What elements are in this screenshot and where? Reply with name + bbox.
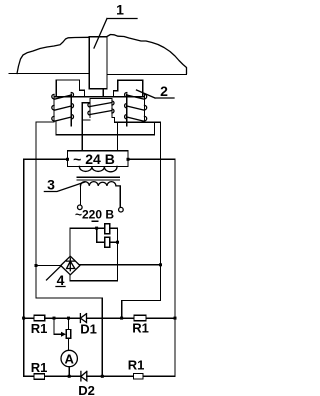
- caption dash: [93, 220, 98, 222]
- wire main top row: [24, 317, 175, 319]
- label 2 leader: [137, 90, 175, 98]
- node dot diamond left: [35, 264, 38, 267]
- node dot shunt top: [67, 317, 70, 320]
- wire left outer vertical: [23, 159, 25, 376]
- label 1 leader: [94, 19, 137, 49]
- wire rectifier bottom loop: [70, 275, 118, 281]
- svg-text:~ 24 В: ~ 24 В: [73, 151, 115, 167]
- wire core to box left: [81, 120, 83, 151]
- svg-text:A: A: [65, 351, 75, 366]
- wire winding left exit: [36, 121, 54, 123]
- wire winding right exit: [115, 121, 161, 123]
- resistor R1 bottom-left: [34, 374, 44, 380]
- right winding diagonals: [127, 95, 145, 121]
- wire core to box right: [117, 122, 119, 151]
- node dot main right-mid: [120, 317, 123, 320]
- right outer rail bumps: [145, 94, 147, 120]
- left inner rail bumps: [71, 93, 73, 119]
- wiper arrow: [54, 318, 63, 334]
- label 4 leader: [47, 266, 66, 287]
- wire right outer vertical: [174, 159, 176, 376]
- shunt resistor vertical: [68, 318, 70, 350]
- wire primary left lead: [79, 186, 81, 205]
- left core bracket: [56, 80, 84, 97]
- right core bracket: [114, 80, 143, 96]
- transformer core lines: [77, 177, 119, 180]
- resistor R1 top-left: [34, 315, 45, 321]
- middle winding bumps: [88, 101, 114, 115]
- terminal circle right: [119, 207, 124, 212]
- node dot wiper: [53, 317, 56, 320]
- wire box right: [128, 158, 175, 160]
- rectifier 4 diamond: [61, 256, 80, 275]
- middle winding diagonals: [90, 103, 112, 115]
- svg-text:~220 В: ~220 В: [75, 208, 114, 222]
- right winding outer rail: [144, 96, 146, 123]
- svg-text:R1: R1: [132, 321, 149, 336]
- node dot diamond right: [159, 263, 162, 266]
- workpiece blob right outline: [107, 35, 187, 74]
- component K2 lower: [105, 237, 110, 247]
- transformer 3 secondary coil: [79, 166, 117, 171]
- svg-text:4: 4: [57, 272, 65, 288]
- inductor winding 2 left rail: [53, 96, 55, 123]
- diode D1: [80, 314, 86, 323]
- wire fuse loop bottom: [97, 228, 118, 242]
- svg-text:R1: R1: [128, 358, 145, 373]
- workpiece blob outline: [17, 37, 89, 73]
- node dot main left: [22, 317, 25, 320]
- middle winding bottom step: [112, 117, 115, 122]
- terminal circle left: [78, 205, 83, 210]
- shunt resistor body: [66, 330, 71, 339]
- node dot box left: [66, 158, 69, 161]
- wire diamond left: [36, 265, 61, 267]
- middle winding right rail: [111, 98, 113, 117]
- node dot ammeter bottom: [68, 375, 71, 378]
- electrode lead: [102, 89, 104, 97]
- ammeter circle: [61, 350, 77, 366]
- node dot fuse top: [95, 227, 98, 230]
- middle winding bracket: [82, 103, 90, 120]
- right winding inner rail: [126, 94, 128, 126]
- wire inner box top: [36, 298, 102, 376]
- core bottom line: [56, 122, 155, 135]
- wire fuse loop top: [70, 228, 118, 256]
- wire box left: [24, 158, 68, 160]
- left rail bumps: [52, 94, 54, 120]
- wire primary right lead: [119, 186, 121, 207]
- resistor R1 top-right: [134, 315, 146, 321]
- wiper arrowhead: [61, 332, 66, 337]
- wire diamond right: [80, 264, 161, 266]
- rectifier diode symbol: [67, 258, 75, 271]
- right inner rail bumps: [125, 93, 127, 119]
- wire right link: [122, 301, 161, 319]
- svg-text:D2: D2: [78, 383, 95, 396]
- svg-text:2: 2: [160, 83, 168, 99]
- component K1 upper: [105, 224, 110, 234]
- middle winding left rail: [89, 98, 91, 117]
- svg-text:R1: R1: [31, 321, 48, 336]
- svg-text:R1: R1: [31, 360, 48, 375]
- wire ammeter to bottom: [68, 367, 70, 377]
- diode D2: [81, 371, 87, 380]
- label 3 leader: [44, 182, 85, 192]
- node dot main right: [174, 317, 177, 320]
- node dot inner box bottom: [101, 375, 104, 378]
- table line under workpiece: [9, 74, 187, 75]
- left winding diagonals: [54, 95, 71, 121]
- svg-text:3: 3: [47, 177, 55, 193]
- wire bottom row: [24, 375, 175, 377]
- node dot fuse right: [116, 241, 119, 244]
- svg-text:1: 1: [116, 2, 124, 18]
- transformer 3 primary coil: [80, 182, 120, 186]
- node dot box right: [127, 158, 130, 161]
- core top line: [54, 96, 145, 98]
- wire right inner vertical: [160, 122, 162, 300]
- resistor R1 bottom-right: [134, 374, 144, 380]
- wire left inner vertical: [35, 122, 37, 298]
- middle winding top edge: [90, 97, 112, 99]
- electrode 1: [89, 37, 107, 89]
- wire fuse right vertical: [117, 228, 119, 281]
- svg-text:D1: D1: [80, 322, 97, 337]
- inductor winding 2 left inner rail: [70, 94, 72, 126]
- box 24V: [68, 151, 129, 167]
